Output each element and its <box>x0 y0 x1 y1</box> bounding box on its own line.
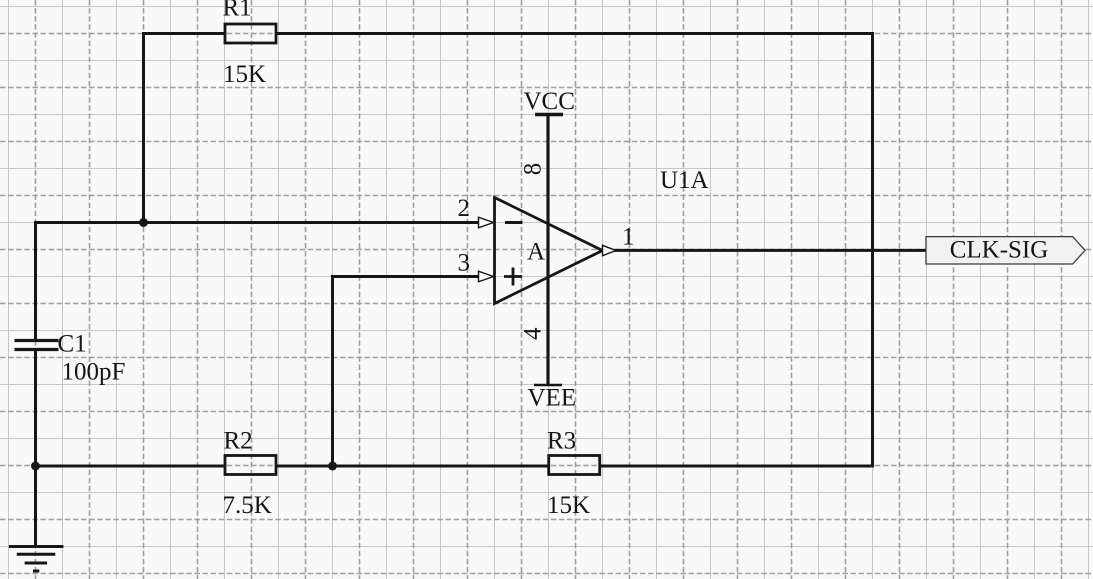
wire op-amp output to CLK-SIG flag <box>615 249 926 252</box>
wire non-inverting branch to pin 3 <box>333 277 479 467</box>
resistor R3 <box>549 456 600 475</box>
capacitor C1 <box>15 341 59 350</box>
svg-text:100pF: 100pF <box>62 359 126 386</box>
svg-text:1: 1 <box>622 224 635 251</box>
ground <box>9 547 64 572</box>
op-amp inverting minus sign <box>505 221 523 224</box>
svg-text:15K: 15K <box>223 61 266 88</box>
power rail line pins 8 and 4 <box>546 115 549 386</box>
junction node R2/R3/pin3 branch <box>328 462 337 471</box>
wire inverting input net horizontal <box>36 221 479 224</box>
op-amp non-inverting plus sign <box>504 268 522 286</box>
junction node feedback/inverting input <box>139 218 148 227</box>
wire feedback top-left segment to R1 <box>144 34 225 223</box>
svg-text:8: 8 <box>520 163 547 176</box>
pin 2 input arrow <box>479 217 494 228</box>
svg-text:R2: R2 <box>224 428 253 455</box>
resistor R1 <box>225 24 276 43</box>
svg-text:3: 3 <box>458 250 471 277</box>
VCC power bar <box>535 113 563 116</box>
resistor R2 <box>225 456 276 475</box>
wire top net R1 to right vertical <box>277 32 873 35</box>
wire bottom net right segment <box>601 465 873 468</box>
svg-text:4: 4 <box>520 327 547 340</box>
wire bottom net left segment <box>36 465 225 468</box>
svg-text:VCC: VCC <box>524 88 575 115</box>
VEE power bar <box>534 384 562 386</box>
pin 3 input arrow <box>479 271 494 282</box>
svg-text:VEE: VEE <box>528 385 577 412</box>
svg-text:CLK-SIG: CLK-SIG <box>950 237 1049 264</box>
svg-text:15K: 15K <box>547 492 590 519</box>
pin 1 output arrow <box>603 245 617 255</box>
wire bottom net middle segment <box>277 465 548 468</box>
off-page connector flag CLK-SIG <box>926 237 1085 264</box>
junction node C1/ground/bottom net <box>31 462 40 471</box>
svg-text:A: A <box>527 239 545 266</box>
svg-text:C1: C1 <box>58 331 87 358</box>
op-amp U1A triangle <box>495 198 603 304</box>
svg-text:2: 2 <box>458 195 471 222</box>
wire left vertical to C1 top plate <box>34 223 37 340</box>
wire right vertical net <box>871 34 874 467</box>
wire ground stem <box>34 466 37 545</box>
svg-text:7.5K: 7.5K <box>223 492 272 519</box>
svg-text:R1: R1 <box>223 0 252 22</box>
wire C1 bottom plate to bottom net <box>34 351 37 466</box>
svg-text:U1A: U1A <box>660 167 709 194</box>
svg-text:R3: R3 <box>547 428 576 455</box>
